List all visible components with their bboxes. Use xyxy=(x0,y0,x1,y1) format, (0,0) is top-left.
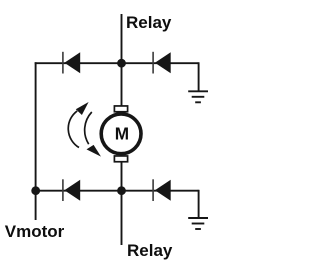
wire: center vertical from top Relay to motor top terminal xyxy=(121,14,123,106)
node: top junction xyxy=(117,59,126,68)
node: bottom-center junction xyxy=(117,186,126,195)
rotation arrow (inner arc, down) xyxy=(85,112,92,144)
rotation arrow (outer arc, up) xyxy=(68,111,79,148)
wire: top horizontal rail xyxy=(35,62,199,64)
motor terminal (top) xyxy=(114,106,127,112)
wire: bottom-right drop to ground xyxy=(198,190,200,218)
svg-text:Relay: Relay xyxy=(127,241,173,260)
node: bottom-left junction xyxy=(31,186,40,195)
rotation arrowhead (down-right) xyxy=(87,145,102,157)
rotation arrowhead (up-right) xyxy=(76,102,89,115)
ground (bottom right) xyxy=(188,218,208,229)
svg-text:Relay: Relay xyxy=(126,13,172,32)
ground (top right) xyxy=(188,91,208,102)
diode D2 (top right) xyxy=(153,52,171,74)
wire: center vertical from motor bottom terminal to bottom Relay xyxy=(121,162,123,245)
wire: top-right drop to ground xyxy=(198,62,200,91)
svg-text:Vmotor: Vmotor xyxy=(5,222,65,241)
motor M1 body xyxy=(101,114,141,154)
diode D1 (top left) xyxy=(63,52,80,74)
diode D4 (bottom right) xyxy=(153,179,171,201)
wire: left vertical rail xyxy=(35,62,37,220)
wire: bottom horizontal rail xyxy=(35,190,199,192)
diode D3 (bottom left) xyxy=(63,179,80,201)
svg-text:M: M xyxy=(115,124,129,144)
motor terminal (bottom) xyxy=(114,156,127,162)
